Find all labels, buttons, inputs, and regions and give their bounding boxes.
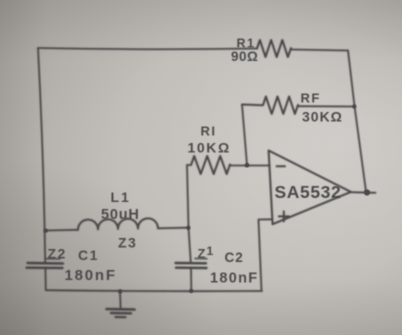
wire: RF left vertical — [242, 105, 247, 165]
op-amp minus input symbol — [277, 165, 286, 167]
wire: lead into R1 10K — [187, 164, 191, 166]
capacitor C1 plates — [27, 263, 64, 268]
wire: top rail right segment — [291, 50, 348, 51]
resistor R1 90ohm zigzag — [257, 40, 291, 57]
wire: C2 vertical lead — [189, 228, 192, 291]
op-amp plus input symbol — [279, 211, 289, 221]
resistor R1 10K zigzag — [191, 156, 230, 174]
resistor RF 30K zigzag — [242, 97, 298, 114]
wire: inductor right lead — [158, 227, 189, 230]
node dot: output junction — [364, 189, 370, 195]
wire: riser to op-amp non-inverting input — [259, 219, 273, 291]
node dot: RF/right rail junction — [352, 104, 356, 108]
inductor L1 50uH Z3 humps — [78, 218, 158, 229]
op-amp U1 SA5532 triangle — [269, 151, 351, 225]
capacitor C2 plates — [176, 263, 207, 268]
node dot: tank right junction — [186, 226, 190, 230]
wire: op-amp output stub — [351, 191, 376, 194]
wire: tank top rail with inductor leads — [46, 229, 78, 232]
node dot: inverting input junction — [245, 163, 250, 168]
node dot: ground junction — [118, 289, 122, 293]
underline under Z2 — [47, 258, 61, 260]
wire: middle vertical from 10K down to tank — [187, 165, 189, 228]
wire: 10K resistor to op-amp inverting input — [230, 165, 270, 167]
ground symbol — [119, 291, 122, 307]
wire: bottom rail — [46, 289, 262, 292]
wire: RF to right rail — [298, 105, 354, 107]
wire: right vertical rail — [348, 51, 366, 192]
underline under Z1 — [195, 258, 207, 260]
node dot: C2 bottom junction — [189, 289, 193, 293]
wire: left vertical rail — [38, 48, 46, 290]
node dot: tank left junction — [44, 229, 48, 233]
wire: top rail left segment — [38, 48, 257, 49]
